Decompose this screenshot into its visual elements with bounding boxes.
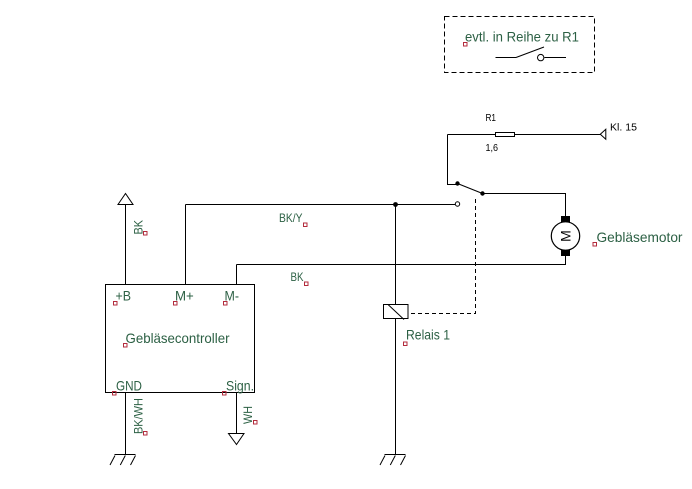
- net BK (vertical): [131, 220, 147, 235]
- pin M+: [174, 288, 194, 306]
- net BK/WH (vertical): [132, 398, 147, 435]
- wire R1 left: [448, 134, 496, 136]
- junction: switch output: [480, 191, 484, 195]
- label: evtl. in Reihe zu R1: [464, 29, 580, 47]
- wire relay to ground: [395, 319, 397, 455]
- pin Sign.: [223, 378, 255, 396]
- svg-text:M: M: [558, 230, 574, 242]
- wire junction down to relay: [395, 205, 397, 305]
- junction: switch common: [455, 181, 459, 185]
- svg-text:Sign.: Sign.: [226, 378, 254, 394]
- ground (controller): [110, 455, 136, 466]
- svg-text:+B: +B: [116, 288, 132, 304]
- label Relais 1: [404, 327, 451, 346]
- svg-text:evtl. in Reihe zu R1: evtl. in Reihe zu R1: [465, 29, 579, 45]
- motor Gebläsemotor M1: [551, 216, 579, 256]
- switch blade (changeover contact): [458, 184, 483, 194]
- wire M+ riser: [185, 205, 187, 285]
- wire R1 right to Kl.15: [515, 134, 601, 136]
- svg-text:R1: R1: [486, 113, 497, 124]
- controller box Gebläsecontroller: [106, 285, 255, 393]
- supply arrow (up): [118, 194, 133, 205]
- wire R1 left drop to switch: [448, 135, 457, 185]
- net WH (vertical): [241, 406, 257, 424]
- pin GND: [113, 378, 143, 396]
- contact: open circle: [455, 202, 459, 206]
- wire M- riser: [236, 265, 238, 285]
- svg-text:1,6: 1,6: [486, 143, 499, 154]
- dashed link relay to switch: [408, 197, 476, 314]
- svg-text:BK/WH: BK/WH: [132, 398, 146, 434]
- terminal Kl. 15: [600, 129, 606, 139]
- ground (relay): [380, 455, 406, 466]
- svg-text:M+: M+: [175, 288, 194, 304]
- pin M-: [224, 288, 240, 306]
- svg-text:Kl. 15: Kl. 15: [610, 123, 637, 134]
- net BK: [291, 270, 309, 286]
- net BK/Y: [279, 211, 307, 227]
- svg-text:WH: WH: [241, 406, 255, 424]
- wire motor bottom to M-: [237, 256, 566, 265]
- label Gebläsecontroller: [124, 330, 230, 347]
- wire GND to ground: [125, 393, 127, 455]
- svg-text:BK: BK: [291, 270, 304, 284]
- resistor R1: [496, 133, 515, 137]
- switch S (optional, in series with R1): [496, 47, 567, 61]
- dashed option box: [445, 17, 595, 73]
- svg-text:Gebläsecontroller: Gebläsecontroller: [126, 330, 230, 346]
- svg-text:Relais 1: Relais 1: [406, 327, 450, 343]
- wire Sign. drop: [236, 393, 238, 434]
- wire switch to motor: [483, 194, 566, 217]
- pin +B: [114, 288, 132, 306]
- svg-text:Gebläsemotor: Gebläsemotor: [597, 229, 683, 245]
- svg-text:GND: GND: [116, 378, 142, 394]
- label Gebläsemotor: [593, 229, 683, 246]
- junction on M+ wire: [393, 202, 398, 207]
- signal arrow (down): [229, 434, 245, 445]
- wire M+ to switch NO contact: [186, 204, 456, 206]
- wire +B riser: [125, 205, 127, 285]
- svg-text:BK/Y: BK/Y: [279, 211, 303, 225]
- relay Relais 1 coil: [384, 305, 409, 320]
